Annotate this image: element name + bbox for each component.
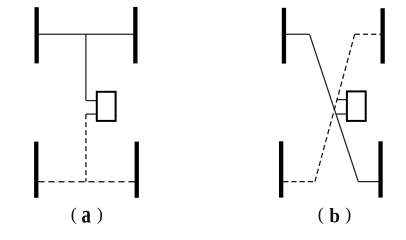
svg-text:b: b [329, 205, 340, 228]
svg-text:): ) [97, 204, 103, 225]
svg-text:): ) [345, 204, 351, 225]
front-right stub wire dashed (b) [355, 33, 381, 35]
gearbox (a) [97, 92, 116, 121]
svg-text:a: a [81, 200, 90, 228]
diagonal shaft wire solid (b) [310, 34, 359, 181]
lower connector wire (b) [336, 113, 347, 115]
wheel rear-left (b) [279, 141, 283, 197]
lower connector wire (a) [86, 113, 96, 115]
gearbox (b) [347, 91, 366, 121]
front axle wire (a) [39, 33, 134, 35]
wheel front-right (b) [381, 8, 385, 63]
svg-text:(: ( [318, 204, 324, 225]
rear-right stub wire (b) [358, 181, 378, 183]
wheel rear-right (b) [378, 141, 382, 197]
propeller shaft wire solid (a) [85, 34, 87, 100]
upper connector wire (b) [336, 99, 347, 101]
front-left stub wire (b) [286, 33, 310, 35]
rear shaft wire dashed (a) [85, 114, 87, 182]
rear axle wire dashed (a) [38, 181, 134, 183]
diagonal shaft wire dashed (b) [315, 34, 355, 181]
upper connector wire (a) [86, 100, 96, 102]
wheel front-right (a) [133, 7, 137, 64]
wheel front-left (b) [282, 8, 286, 64]
wheel rear-right (a) [135, 142, 139, 198]
rear-left stub wire dashed (b) [283, 181, 315, 183]
wheel front-left (a) [35, 7, 39, 63]
svg-text:(: ( [71, 204, 77, 225]
wheel rear-left (a) [34, 142, 38, 198]
